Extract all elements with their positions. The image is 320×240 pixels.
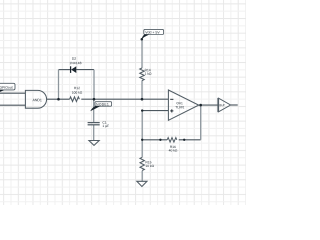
AND gate AND1 label [33, 99, 42, 101]
wire R14 bottom to inverting net [141, 81, 143, 100]
resistor R16 reference label [170, 146, 176, 148]
wire node A to R12 [59, 98, 70, 100]
wire op-amp output to buffer [199, 104, 218, 106]
resistor R16 left terminal dot [159, 139, 161, 141]
wire C1 bottom lead to ground [93, 125, 95, 140]
resistor R12 value label [72, 91, 82, 93]
buffer BUF label [220, 104, 225, 106]
resistor R16 value label [169, 149, 177, 151]
resistor R14 zigzag [140, 68, 144, 81]
wire upper AND input [0, 92, 25, 94]
power flag Vdd tail [141, 34, 148, 39]
resistor R15 zigzag [140, 157, 144, 170]
resistor R15 value label [146, 165, 154, 167]
node junction dot at R14 bottom [141, 98, 144, 101]
flag NODE1 tail [90, 106, 99, 111]
node Vdd dot [141, 38, 144, 41]
diode D2 value label [70, 62, 82, 64]
op-amp OA1 reference label [177, 102, 183, 104]
wire op-amp non-inverting input [142, 110, 168, 112]
flag NODE1 box [95, 102, 112, 107]
resistor R12 reference label [74, 87, 80, 89]
wire D2 loop left vertical [58, 70, 60, 100]
capacitor C1 value label [103, 125, 109, 128]
resistor R14 reference label [145, 69, 151, 71]
ground under R15 [137, 181, 147, 186]
wire non-inverting net vertical [141, 111, 143, 158]
wire R16 left lead [160, 139, 167, 141]
resistor R15 reference label [146, 161, 152, 163]
flag GPIOout text [0, 86, 13, 88]
node A junction dot [57, 98, 60, 101]
flag GPIOout tail [0, 90, 4, 94]
wire R12 to op-amp inverting input [81, 98, 168, 100]
wire C1 top lead [93, 99, 95, 122]
resistor R16 zigzag [167, 138, 177, 143]
power flag Vdd +5V text [145, 31, 159, 34]
node B junction dot above C1 [93, 98, 96, 101]
AND gate AND1 [25, 90, 46, 108]
op-amp OA1 body [168, 90, 198, 120]
wire AND1 output to node A [47, 98, 59, 100]
wire R16 right lead [179, 139, 185, 141]
diode D2 reference label [72, 57, 76, 59]
resistor R14 value label [145, 72, 151, 74]
resistor R16 right terminal dot [183, 139, 185, 141]
buffer BUF body [219, 98, 231, 112]
wire D2 loop top left segment [59, 69, 71, 71]
node feedback junction dot [141, 139, 143, 141]
flag GPIOout box [0, 83, 15, 90]
capacitor C1 [88, 123, 100, 125]
capacitor C1 reference label [103, 121, 107, 123]
node output junction dot [199, 104, 202, 107]
ground under C1 [89, 141, 99, 146]
wire feedback row left segment [142, 139, 160, 141]
op-amp OA1 plus pin mark [170, 109, 173, 112]
power flag Vdd +5V box [144, 29, 164, 34]
wire feedback vertical to output node [200, 105, 202, 140]
wire R15 bottom to ground [141, 171, 143, 182]
wire D2 loop right vertical [93, 70, 95, 100]
wire lower AND input [0, 104, 25, 106]
resistor R12 zigzag [70, 97, 80, 102]
wire R16 to output corner [184, 139, 201, 141]
op-amp OA1 minus pin mark [170, 98, 173, 100]
flag NODE1 text [96, 103, 108, 105]
op-amp OA1 value label [175, 106, 184, 108]
wire buffer output [231, 104, 238, 106]
diode D2 [71, 66, 77, 73]
wire Vdd node down to R14 [141, 39, 143, 68]
node non-inverting corner dot [141, 109, 143, 111]
wire D2 loop top right segment [76, 69, 94, 71]
buffer BUF input bar [217, 98, 219, 112]
